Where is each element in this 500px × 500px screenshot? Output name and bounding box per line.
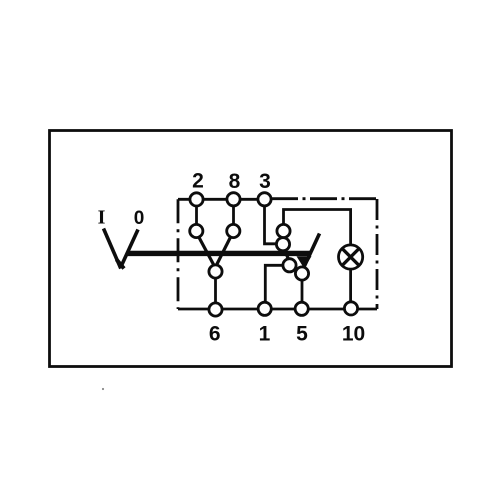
svg-text:6: 6 bbox=[209, 323, 221, 346]
switch housing outline left (dashed) bbox=[177, 199, 180, 309]
wire contact D to terminal 5 bbox=[301, 274, 304, 310]
moving contact arm pole 1 right bbox=[217, 237, 231, 266]
terminal 8 bbox=[227, 193, 240, 206]
svg-text:10: 10 bbox=[342, 323, 365, 346]
terminal 1 bbox=[258, 302, 271, 315]
actuator bar bbox=[127, 251, 311, 256]
lever arm position I bbox=[104, 229, 121, 269]
wire contact C to terminal 1 bbox=[265, 265, 289, 309]
fixed contact B bbox=[276, 238, 289, 251]
fixed contact D bbox=[295, 267, 308, 280]
lamp L bbox=[339, 245, 363, 269]
terminal 2 bbox=[190, 193, 203, 206]
terminal 3 bbox=[258, 193, 271, 206]
svg-text:0: 0 bbox=[134, 208, 145, 229]
lever vertex bbox=[117, 260, 125, 269]
wire terminal 2 to contact bbox=[195, 199, 198, 231]
fixed contact C bbox=[283, 259, 296, 272]
svg-text:1: 1 bbox=[259, 323, 271, 346]
lever arm position 0 bbox=[122, 230, 139, 266]
pivot pole 1 bbox=[209, 265, 222, 278]
moving contact arm pole 1 left bbox=[199, 237, 214, 266]
svg-text:I: I bbox=[98, 207, 106, 229]
wire lamp to terminal 10 bbox=[349, 269, 352, 310]
fixed contact under 8 bbox=[227, 224, 240, 237]
svg-text:2: 2 bbox=[192, 170, 204, 193]
stray dot bbox=[102, 388, 104, 390]
wire bottom bus (terminals 6-1-5-10) bbox=[178, 308, 377, 311]
wire terminal 3 to contact B bbox=[265, 199, 284, 244]
terminal 10 bbox=[344, 302, 357, 315]
wire contact A to lamp bbox=[284, 210, 351, 246]
wire pivot to terminal 6 bbox=[214, 272, 217, 310]
moving contact link B-C bbox=[284, 249, 289, 261]
svg-text:3: 3 bbox=[259, 170, 271, 193]
fixed contact A bbox=[277, 224, 290, 237]
wire top bus (terminals 2-8-3) bbox=[178, 198, 265, 201]
cam follower wedge bbox=[297, 256, 312, 268]
fixed contact under 2 bbox=[190, 224, 203, 237]
terminal 5 bbox=[295, 302, 308, 315]
svg-text:8: 8 bbox=[229, 170, 241, 193]
moving contact arm pole 2 bbox=[304, 234, 320, 269]
switch housing outline right (dash-dot) bbox=[376, 199, 379, 309]
switch housing outline top-right and right (dash-dot) bbox=[271, 197, 378, 200]
svg-text:5: 5 bbox=[296, 323, 308, 346]
wire terminal 8 to contact bbox=[232, 199, 235, 231]
terminal 6 bbox=[209, 303, 222, 316]
